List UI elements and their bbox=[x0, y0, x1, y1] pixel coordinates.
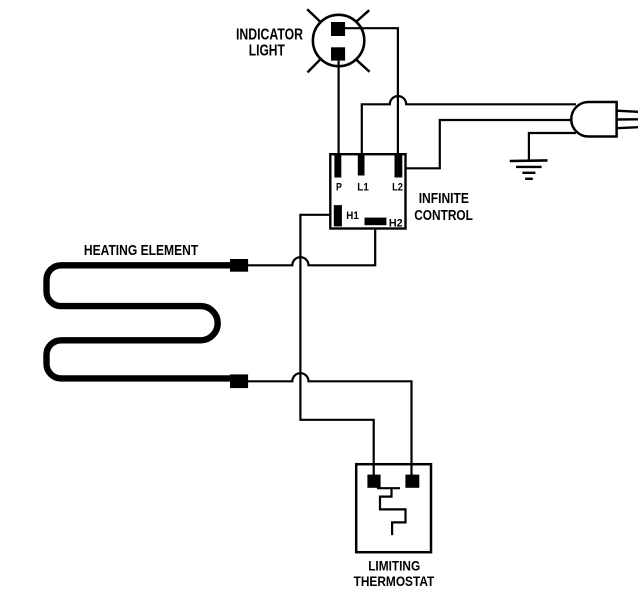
svg-text:L1: L1 bbox=[357, 182, 369, 194]
wire: L2 right and up to plug middle conductor bbox=[405, 120, 576, 168]
svg-text:THERMOSTAT: THERMOSTAT bbox=[354, 574, 435, 589]
wire: H2 down then left to heating element top terminal, hop over bus bbox=[246, 229, 375, 265]
ground symbol bbox=[510, 160, 548, 178]
svg-text:LIGHT: LIGHT bbox=[249, 43, 285, 60]
terminal L2 bbox=[395, 155, 403, 178]
svg-text:HEATING ELEMENT: HEATING ELEMENT bbox=[84, 243, 198, 259]
wire: H1 left and down (vertical bus at x=302) then right to thermostat left terminal bbox=[300, 215, 373, 475]
wire: L1 up and right to plug, with hop over indicator-L2 wire bbox=[362, 96, 576, 155]
svg-text:INDICATOR: INDICATOR bbox=[236, 26, 303, 43]
plug prong bottom bbox=[617, 127, 638, 128]
wire: indicator top terminal to L2 bbox=[345, 28, 398, 156]
terminal H2 bbox=[365, 218, 387, 226]
svg-text:H1: H1 bbox=[346, 210, 359, 222]
indicator light lamp symbol bbox=[307, 9, 369, 72]
label INDICATOR LIGHT bbox=[236, 26, 303, 59]
label INFINITE CONTROL bbox=[414, 191, 473, 224]
plug prong top bbox=[617, 111, 638, 112]
label LIMITING THERMOSTAT bbox=[354, 558, 435, 589]
wire: plug bottom conductor to ground bbox=[529, 133, 576, 160]
limiting thermostat box bbox=[356, 464, 431, 552]
thermostat right terminal bbox=[405, 475, 419, 488]
wire: heating element bottom terminal right to thermostat right terminal, hop over bus bbox=[246, 373, 412, 475]
plug prong middle bbox=[617, 118, 638, 121]
thermostat left terminal bbox=[367, 475, 380, 488]
infinite control box bbox=[330, 154, 405, 228]
terminal P bbox=[334, 155, 341, 178]
thermostat bimetal zigzag bbox=[377, 488, 406, 535]
wire: indicator bottom terminal to P bbox=[338, 61, 340, 155]
terminal L1 bbox=[358, 155, 365, 176]
svg-text:L2: L2 bbox=[392, 182, 403, 194]
svg-text:CONTROL: CONTROL bbox=[414, 208, 473, 224]
power cord plug bbox=[571, 102, 616, 137]
indicator light bottom terminal bbox=[331, 47, 345, 60]
svg-text:P: P bbox=[336, 182, 342, 194]
heating element top terminal bbox=[230, 259, 248, 272]
heating element serpentine bbox=[47, 265, 240, 378]
svg-text:H2: H2 bbox=[389, 217, 403, 229]
heating element bottom terminal bbox=[230, 374, 248, 388]
indicator light top terminal bbox=[331, 22, 345, 36]
terminal H1 bbox=[334, 205, 342, 226]
svg-text:INFINITE: INFINITE bbox=[419, 191, 469, 207]
svg-text:LIMITING: LIMITING bbox=[368, 558, 420, 574]
